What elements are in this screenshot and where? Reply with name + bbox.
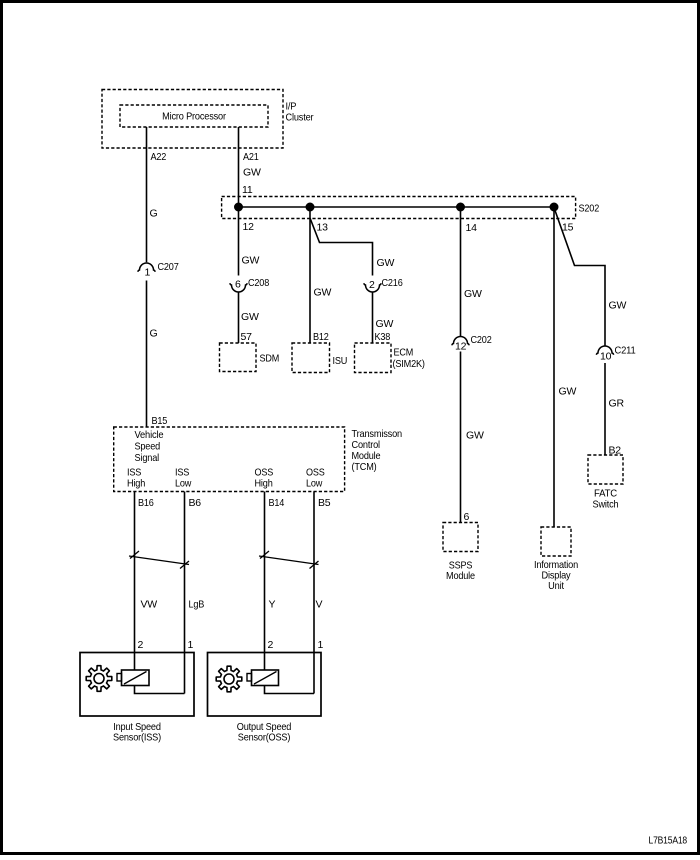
svg-text:GW: GW (559, 386, 577, 398)
connector C211 (596, 345, 636, 357)
wire A22 from Micro Processor (146, 127, 148, 262)
svg-text:Unit: Unit (548, 580, 564, 592)
svg-text:G: G (150, 208, 158, 220)
Micro Processor U1 (120, 105, 268, 127)
gear icon ISS (86, 666, 112, 692)
svg-text:B14: B14 (269, 497, 285, 509)
wire LgB from B6 to ISS sensor (184, 492, 186, 694)
connector C216 (364, 277, 403, 292)
wire G from C207 to TCM (146, 281, 148, 428)
svg-text:12: 12 (243, 221, 255, 233)
svg-text:A22: A22 (151, 151, 167, 163)
svg-text:GW: GW (243, 167, 261, 179)
svg-text:B12: B12 (313, 331, 329, 343)
svg-text:B6: B6 (189, 497, 202, 509)
SDM module box (220, 343, 280, 372)
svg-text:Vehicle: Vehicle (135, 429, 164, 441)
svg-text:G: G (150, 328, 158, 340)
svg-text:Low: Low (175, 478, 192, 490)
svg-text:GW: GW (242, 255, 260, 267)
svg-text:Speed: Speed (135, 441, 161, 453)
inductive pickup element ISS (117, 670, 149, 686)
Information Display Unit box (534, 527, 578, 592)
svg-text:GW: GW (376, 318, 394, 330)
svg-text:C207: C207 (158, 261, 179, 273)
wire GW from node 13 to ISU (309, 207, 311, 343)
svg-text:15: 15 (562, 222, 574, 234)
wire from node 13 to C216 (310, 218, 373, 276)
junction node 15 (550, 203, 558, 211)
wire V from B5 to OSS sensor (313, 492, 315, 694)
label I/P Cluster (286, 101, 315, 124)
label ISS Low (175, 467, 192, 490)
svg-text:13: 13 (317, 222, 329, 234)
wire VW from B16 to ISS sensor (134, 492, 136, 671)
svg-text:ECM: ECM (394, 347, 414, 359)
svg-text:(SIM2K): (SIM2K) (393, 358, 425, 370)
svg-text:1: 1 (145, 267, 151, 279)
wire A21 from Micro Processor to splice S202 (238, 127, 240, 204)
connector C208 (230, 277, 270, 292)
svg-text:Y: Y (269, 599, 276, 611)
junction node 13 (306, 203, 314, 211)
Output Speed Sensor (OSS) box (208, 653, 322, 717)
SSPS module box (443, 523, 478, 583)
svg-text:6: 6 (464, 511, 470, 523)
svg-text:14: 14 (466, 222, 478, 234)
I/P Cluster box (102, 90, 283, 149)
label Input Speed Sensor(ISS) (113, 721, 161, 744)
wire GW from C216 to ECM (372, 292, 374, 343)
svg-text:K38: K38 (375, 331, 391, 343)
svg-text:Module: Module (446, 570, 475, 582)
bus wire S202 (239, 206, 555, 208)
label OSS High (255, 467, 274, 490)
gear icon OSS (216, 666, 242, 692)
wire from node 15 to C211 (555, 209, 606, 346)
Input Speed Sensor (ISS) box (80, 653, 194, 717)
svg-text:SDM: SDM (260, 353, 280, 365)
wire GW from node 15 to Information Display Unit (553, 207, 555, 527)
svg-text:2: 2 (369, 279, 375, 291)
svg-text:High: High (127, 478, 145, 490)
label Output Speed Sensor(OSS) (237, 721, 292, 744)
splice S202 box (222, 197, 600, 219)
svg-text:ISU: ISU (333, 355, 348, 367)
svg-text:B5: B5 (318, 497, 331, 509)
svg-text:12: 12 (455, 341, 467, 353)
svg-text:GW: GW (466, 430, 484, 442)
svg-text:Sensor(ISS): Sensor(ISS) (113, 732, 161, 744)
wire GW from C202 to SSPS module (460, 352, 462, 523)
FATC Switch box (588, 455, 623, 511)
svg-text:GW: GW (464, 288, 482, 300)
twisted pair symbol ISS (129, 551, 189, 569)
wire GW from node 12 to C208 (238, 207, 240, 276)
svg-text:C211: C211 (615, 345, 636, 357)
svg-text:L7B15A18: L7B15A18 (649, 836, 688, 847)
wire GW from node 14 to C202 (460, 207, 462, 336)
connector C207 (138, 261, 179, 273)
ECM module box (355, 343, 425, 373)
wire Y from B14 to OSS sensor (264, 492, 266, 671)
svg-text:S202: S202 (579, 203, 600, 215)
svg-text:A21: A21 (243, 151, 259, 163)
junction node 14 (457, 203, 465, 211)
svg-text:1: 1 (318, 639, 324, 651)
svg-text:GR: GR (609, 398, 625, 410)
svg-text:GW: GW (314, 287, 332, 299)
wire from OSS element to pin 1 (265, 686, 315, 694)
svg-text:C208: C208 (248, 277, 269, 289)
svg-text:Cluster: Cluster (286, 112, 315, 124)
svg-text:57: 57 (241, 331, 253, 343)
svg-text:Low: Low (306, 478, 323, 490)
connector C202 (452, 334, 492, 346)
svg-text:2: 2 (268, 639, 274, 651)
svg-text:V: V (316, 599, 323, 611)
svg-text:Switch: Switch (593, 499, 619, 511)
svg-text:C216: C216 (382, 277, 403, 289)
svg-text:GW: GW (609, 300, 627, 312)
twisted pair symbol OSS (259, 551, 319, 569)
svg-text:10: 10 (600, 351, 612, 363)
svg-text:GW: GW (241, 311, 259, 323)
svg-text:2: 2 (138, 639, 144, 651)
Transmission Control Module (TCM) box (114, 427, 345, 492)
inductive pickup element OSS (247, 670, 279, 686)
junction node 12 (235, 203, 243, 211)
svg-text:Signal: Signal (135, 452, 160, 464)
svg-text:Sensor(OSS): Sensor(OSS) (238, 732, 290, 744)
svg-text:6: 6 (235, 279, 241, 291)
wire GW from C208 to SDM (238, 292, 240, 343)
label Transmission Control Module (TCM) (352, 428, 403, 473)
svg-text:B15: B15 (152, 415, 168, 427)
svg-text:C202: C202 (471, 334, 492, 346)
wire GR from C211 to FATC switch (604, 363, 606, 455)
label ISS High (127, 467, 145, 490)
svg-text:LgB: LgB (189, 599, 205, 611)
label OSS Low (306, 467, 325, 490)
ISU module box (292, 343, 347, 373)
svg-text:GW: GW (377, 257, 395, 269)
svg-text:High: High (255, 478, 273, 490)
wire from ISS element to pin 1 (135, 686, 185, 694)
svg-text:11: 11 (242, 184, 253, 196)
svg-text:(TCM): (TCM) (352, 461, 377, 473)
svg-text:1: 1 (188, 639, 194, 651)
svg-text:B16: B16 (138, 497, 154, 509)
svg-text:VW: VW (141, 599, 158, 611)
svg-text:Micro Processor: Micro Processor (162, 111, 226, 123)
label Vehicle Speed Signal (135, 429, 164, 464)
